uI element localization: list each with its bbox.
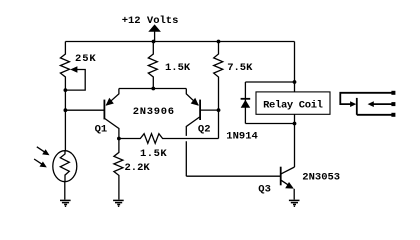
relay contact common wire [340,93,393,115]
node dot Q1 collector junction [117,137,121,141]
svg-text:Q3: Q3 [258,184,271,196]
transistor Q1 collector wire [105,119,119,139]
wire pot wiper loop [65,70,85,91]
transistor Q3 collector wire [281,167,294,174]
power +12 Volts arrow [148,24,161,41]
svg-text:2N3906: 2N3906 [133,106,175,118]
wire diode top [245,81,294,83]
transistor Q3 emitter arrowhead [285,182,294,189]
wire Q2 collector to Q3 base [186,175,280,177]
wire 7.5K node down to 1.5K feedback [218,110,220,138]
relay contact middle throw with arrowhead [372,103,394,105]
wire Q1 base [65,109,103,111]
photocell light arrow 1 [37,147,50,155]
resistor 25K (potentiometer body) [60,42,69,91]
node dot diode top / main vertical [293,80,297,84]
photocell zigzag [60,151,69,182]
node dot diode bottom / main vertical [293,122,297,126]
diode 1N914 body [241,82,251,124]
node dot Q2 base / 7.5K [217,108,221,112]
wire Q3 emitter to ground [293,189,295,200]
transistor Q3 base bar [280,167,282,186]
wire Q2 base [200,109,218,111]
node dot wiper/left wire [64,88,68,92]
relay contact terminal square bottom [391,113,395,117]
node junction dot at +12 rail / 1.5K [152,40,156,44]
wire emitter rail Q1-Q2 [119,88,186,90]
transistor Q1 base bar [103,100,105,120]
photocell light arrow 2 [34,159,47,167]
resistor 7.5K [214,42,223,111]
relay contact terminal square top [391,91,395,95]
node dot emitter rail / 1.5K [151,87,155,91]
wire photocell to ground [64,181,66,199]
resistor 1.5K vertical [148,42,157,89]
ground below Q3 [289,200,300,206]
svg-text:+12 Volts: +12 Volts [122,15,179,27]
svg-text:25K: 25K [75,53,97,65]
wire left branch down to photocell [64,90,66,151]
relay coil box [256,92,330,114]
svg-text:1.5K: 1.5K [165,62,191,74]
svg-text:Q2: Q2 [198,124,211,136]
photocell LDR circle [53,151,77,182]
svg-text:Relay Coil: Relay Coil [263,100,323,112]
relay contact terminal square middle [391,102,395,106]
transistor Q1 emitter wire [106,89,119,106]
wire right vertical from rail to relay box [294,42,296,92]
wire top +12V rail [65,41,294,43]
ground below photocell [60,200,71,206]
wire diode bottom [245,123,294,125]
transistor Q2 collector wire [186,117,199,176]
transistor Q2 emitter arrowhead [191,98,199,106]
relay contact pivot bar [356,98,358,115]
transistor Q3 emitter wire [281,180,292,187]
svg-text:2N3053: 2N3053 [302,171,340,183]
svg-text:1.5K: 1.5K [140,148,167,160]
resistor 1.5K horizontal (feedback) [119,134,219,144]
resistor 2.2K [114,139,123,200]
ground below 2.2K [113,200,124,206]
wire relay box bottom to Q3 collector [294,114,296,167]
svg-text:1N914: 1N914 [226,131,258,143]
transistor Q2 emitter wire [186,89,198,106]
transistor Q2 base bar [199,100,201,120]
relay contact bottom throw [357,114,394,116]
svg-text:7.5K: 7.5K [227,62,253,74]
relay contact common arrowhead [350,101,356,107]
node dot Q1 base tap [64,108,68,112]
svg-text:Q1: Q1 [95,124,108,136]
node junction dot rail / 7.5K [217,40,221,44]
svg-text:2.2K: 2.2K [125,162,151,174]
pot wiper arrowhead [70,66,77,73]
transistor Q1 emitter arrowhead [106,98,114,106]
